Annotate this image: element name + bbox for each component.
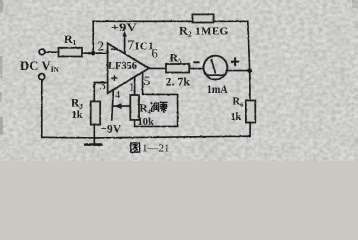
svg-text:R2 1MEG: R2 1MEG [179,24,229,39]
resistor R3 body [91,101,101,124]
svg-text:1k: 1k [231,112,242,123]
wire pin 1 to pot [134,77,136,95]
svg-text:4: 4 [115,89,121,101]
wire meter right lead [226,70,249,72]
label 调零 (drawn strokes) [151,102,168,112]
零 [160,102,168,106]
meter base chord [207,74,225,76]
svg-text:6: 6 [152,47,158,61]
svg-text:+9V: +9V [111,22,138,34]
svg-text:−9V: −9V [101,124,122,136]
resistor R5 body [166,64,189,73]
label 图 1-21 caption [131,143,170,155]
wire R1 to pin 2 [82,52,108,54]
node output junction dot [248,69,253,74]
wire pin 4 to -9V [112,90,114,120]
node A junction dot [91,51,95,55]
wire bottom rail [42,136,250,138]
wire meter left lead [189,68,203,70]
input terminal (bottom) [39,74,45,80]
svg-text:10k: 10k [138,117,155,128]
wire input drop [41,80,43,138]
meter plus polarity [231,57,239,65]
wire pin 3 to R3 [94,83,107,102]
potentiometer R4 wiper arrowhead [114,103,121,109]
paper background [0,0,358,161]
resistor R1 body [59,48,83,57]
wire pot bottom loop to pin 5 [135,72,178,126]
meter needle [211,59,215,74]
调 [151,102,153,111]
svg-text:1—21: 1—21 [142,143,170,155]
图 glyph [131,143,140,152]
svg-text:5: 5 [144,73,151,88]
svg-text:3: 3 [99,77,106,92]
wire input to R1 [45,51,58,53]
resistor R2 body [192,14,213,22]
svg-text:2. 7k: 2. 7k [166,75,191,89]
wire R3 to ground rail [93,125,95,138]
wire feedback riser [92,21,94,53]
op-amp plus sign [111,75,117,81]
+9V supply arrowhead [122,31,126,37]
wire pin 7 supply stub [124,36,126,53]
meter M 1mA body [204,56,228,80]
wire R6 to bottom rail [249,123,251,137]
input terminal (top) [39,49,45,55]
svg-text:LF356: LF356 [108,61,137,72]
resistor R6 body [246,101,255,123]
wire top rail [93,20,248,22]
svg-text:1: 1 [129,80,135,94]
svg-text:2: 2 [97,38,104,53]
edge smudges [0,0,358,135]
meter minus polarity [193,61,199,63]
op-amp U1 LF356 triangle [108,43,149,93]
wire op-amp output to R5 [149,67,166,69]
wire right rail upper [248,21,250,71]
svg-text:7: 7 [127,39,134,54]
wire pot wiper [113,105,131,107]
potentiometer R4 body [130,95,139,120]
svg-text:1mA: 1mA [207,82,228,96]
ground [93,138,95,144]
op-amp minus sign [111,48,117,50]
svg-text:1k: 1k [72,110,83,121]
wire right rail to R6 [249,71,251,101]
